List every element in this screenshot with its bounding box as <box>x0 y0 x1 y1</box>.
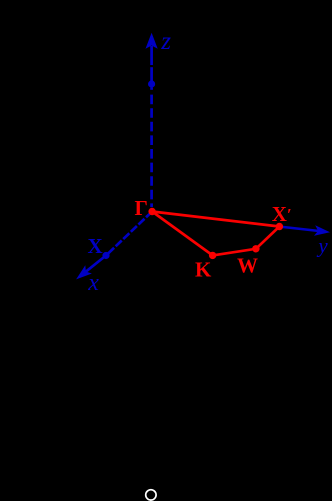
svg-text:X: X <box>88 234 103 258</box>
dot on z-axis <box>148 80 155 87</box>
z-axis arrowhead <box>146 33 158 49</box>
svg-text:K: K <box>195 257 212 281</box>
svg-text:x: x <box>87 270 99 296</box>
red path Gamma to X' <box>152 212 279 227</box>
circle O at bottom <box>146 490 156 500</box>
z-axis solid segment lower <box>150 67 153 82</box>
node X' dot <box>276 223 283 230</box>
z-axis solid segment upper <box>150 46 153 65</box>
y-axis solid segment (X' dot to arrowhead) <box>281 227 318 231</box>
svg-text:y: y <box>316 234 328 258</box>
svg-text:z: z <box>160 28 171 55</box>
red path W to X' <box>256 227 280 249</box>
red path K to W <box>213 249 256 256</box>
node K dot <box>209 252 216 259</box>
node Gamma dot <box>148 208 155 215</box>
z-axis stub below dot <box>150 87 153 90</box>
z-axis dashed segment (Gamma up to dot) <box>150 95 153 207</box>
svg-text:X′: X′ <box>272 202 292 226</box>
dot X on x-axis <box>102 252 109 259</box>
x-axis arrowhead <box>76 265 92 279</box>
svg-text:W: W <box>237 253 258 277</box>
y-axis arrowhead <box>314 225 330 236</box>
svg-text:Γ: Γ <box>135 196 148 220</box>
red path Gamma to K <box>152 212 213 256</box>
x-axis solid segment (X dot to arrowhead) <box>85 256 106 273</box>
x-axis dashed segment (Gamma down-left to X dot) <box>106 212 152 256</box>
node W dot <box>252 245 259 252</box>
